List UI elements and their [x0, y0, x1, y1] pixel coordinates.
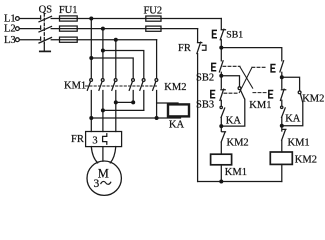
svg-text:KA: KA	[169, 120, 185, 131]
svg-text:KM2: KM2	[295, 155, 317, 166]
svg-text:KM1: KM1	[225, 167, 247, 178]
svg-text:KA: KA	[226, 115, 242, 126]
svg-text:L3: L3	[4, 35, 16, 46]
svg-text:SB3: SB3	[196, 100, 214, 111]
svg-text:QS: QS	[39, 5, 53, 16]
svg-text:3: 3	[92, 136, 97, 147]
svg-text:FU1: FU1	[59, 5, 78, 16]
svg-text:L2: L2	[4, 24, 16, 35]
svg-text:KM1: KM1	[288, 138, 310, 149]
svg-text:M: M	[98, 167, 109, 181]
svg-text:KA: KA	[285, 113, 301, 124]
svg-text:KM2: KM2	[164, 82, 186, 93]
svg-text:FU2: FU2	[143, 5, 162, 16]
svg-text:FR: FR	[71, 134, 84, 145]
svg-text:KM1: KM1	[64, 81, 86, 92]
svg-text:KM2: KM2	[302, 94, 324, 105]
svg-text:3: 3	[94, 178, 100, 190]
svg-text:KM1: KM1	[249, 100, 271, 111]
svg-text:FR: FR	[178, 43, 191, 54]
svg-text:SB2: SB2	[196, 73, 214, 84]
svg-text:SB1: SB1	[226, 29, 243, 40]
svg-text:KM2: KM2	[227, 138, 249, 149]
